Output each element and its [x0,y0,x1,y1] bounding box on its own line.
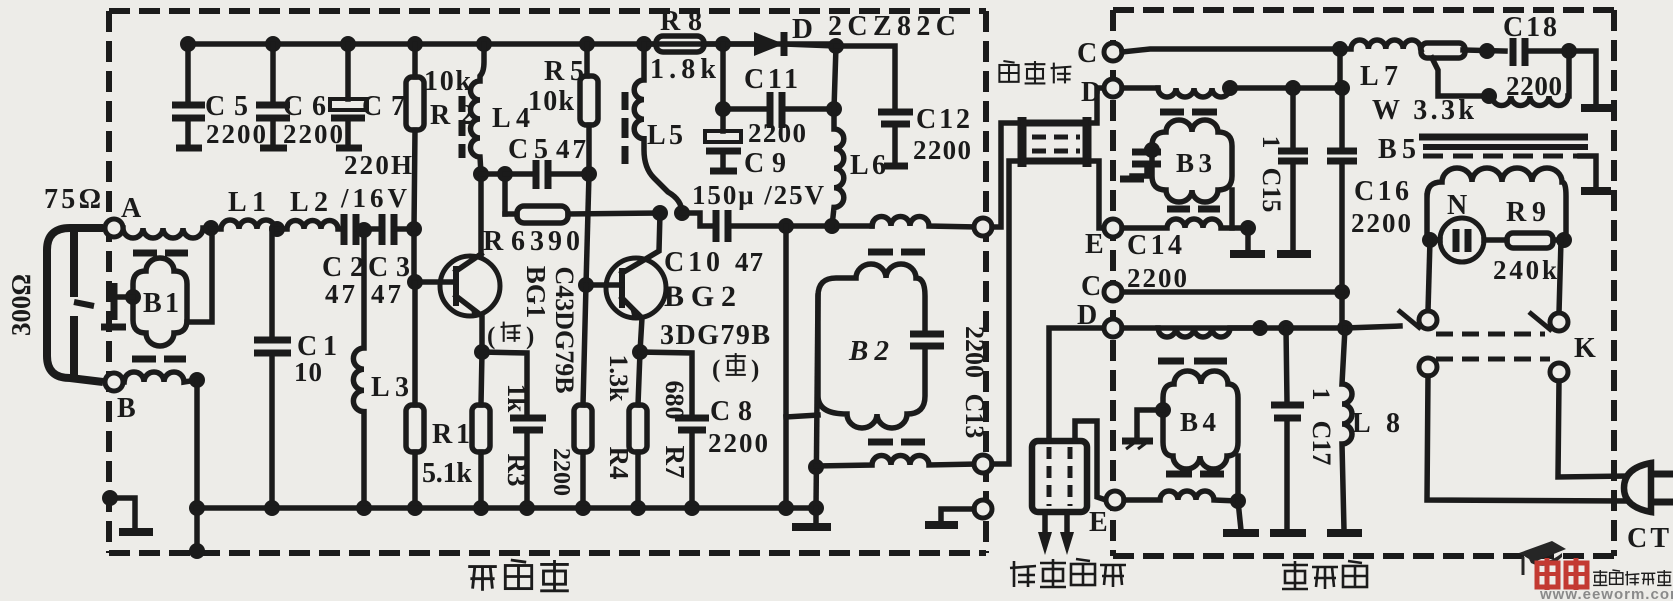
B2 secondary loop [818,264,925,428]
node at B1 bottom right [189,372,205,388]
terminal A [105,219,123,237]
svg-text:(: ( [712,356,720,383]
svg-text:240k: 240k [1493,255,1557,285]
C14 capacitor at B3 left [1144,142,1160,158]
svg-text:220H: 220H [344,150,412,180]
svg-text:1: 1 [1257,136,1284,149]
B1 bottom core [132,356,156,363]
svg-text:BG1: BG1 [521,266,551,319]
wire to B2 left rail [786,415,818,417]
B1 secondary to primary link wire [187,228,212,322]
terminal D top [1104,79,1122,97]
to-TV caption (CJK) [1010,559,1126,587]
enclosure right border [983,11,989,553]
svg-text:C12: C12 [916,104,970,135]
wire R5 node down to BG2 base [586,174,589,285]
B2 tertiary winding [816,456,975,467]
B2 core top [868,249,893,256]
svg-text:R1: R1 [432,419,470,450]
wire base node to BG1 [407,274,423,290]
tertiary ground T [1238,501,1241,530]
collector line / C10 coupling [652,205,668,221]
svg-text:BG2: BG2 [664,280,736,313]
node L4 bottom / collector [473,166,489,182]
svg-text:5.1k: 5.1k [422,458,472,489]
svg-text:A: A [121,193,142,224]
B2 left rail down [816,296,818,508]
wire connector to terminal E (bottom) [1075,421,1106,500]
ground drop from bus end [813,508,819,523]
wire C mid to C16 [1122,289,1342,295]
terminal C mid [1104,283,1122,301]
power-box caption (CJK) [1282,561,1367,589]
node [269,221,285,237]
capacitor C13 across B2 [910,331,944,338]
svg-text:1: 1 [1307,388,1334,401]
ground at box corner [110,498,135,528]
folded dipole antenna [47,228,103,382]
terminal C top [1104,43,1122,61]
B1 secondary tap node [125,289,141,305]
B3 tertiary winding on E wire [1122,219,1248,228]
B5 primary winding loop (wiper branch) [1489,51,1569,106]
svg-text:2200: 2200 [548,448,574,496]
wire twin lead bottom-right to terminal E [1091,161,1104,228]
B1 secondary winding [133,258,187,346]
terminal E bottom [1106,491,1124,509]
wire node down from L2/C3 node [411,229,417,283]
enclosure top border [1113,7,1614,13]
svg-text:L5: L5 [647,120,683,151]
enclosure left border [106,11,112,553]
B5 rod right end to ground [1580,156,1596,188]
svg-text:C15: C15 [1257,168,1286,213]
ground T at E wire [1245,228,1251,250]
svg-text:E: E [1085,229,1104,260]
svg-text:www.eeworm.com: www.eeworm.com [1539,586,1673,601]
B4 core [1158,358,1184,365]
terminal D mid [1104,319,1122,337]
wire C18 right to ground T [1569,51,1596,105]
switch to plug wires [1427,376,1626,501]
svg-text:2200: 2200 [960,326,989,378]
B4 chassis tap [1155,402,1171,418]
svg-text:C13: C13 [960,394,989,439]
B3 secondary right leg to E wire [1229,190,1235,228]
svg-text:C5: C5 [508,134,548,165]
svg-text:B1: B1 [143,288,179,319]
svg-text:3DG79B: 3DG79B [660,320,770,351]
svg-text:C: C [1081,271,1101,302]
transformer B1 primary winding [123,228,211,238]
enclosure top border [109,8,986,14]
svg-text:C: C [1077,38,1097,69]
B1 core [133,250,157,257]
left pole [1419,311,1437,329]
svg-text:390: 390 [530,226,580,257]
emitter node BG1 [474,344,490,360]
svg-text:C17: C17 [1307,421,1336,466]
svg-text:C16: C16 [1354,176,1409,207]
svg-text:B: B [117,393,136,424]
node [406,221,422,237]
svg-text:C43DG79B: C43DG79B [550,266,579,393]
svg-text:K: K [1574,333,1596,364]
wire from C10 node down to ground bus [783,226,789,508]
svg-text:L6: L6 [850,150,886,181]
svg-text:B4: B4 [1180,407,1216,437]
stub to C5-47 and R6 [481,174,505,214]
switch link dashed [1436,332,1545,337]
svg-text:C11: C11 [744,64,798,95]
B1 bottom winding [124,372,197,382]
B3 core [1160,109,1184,116]
svg-text:1.3k: 1.3k [604,355,633,403]
enclosure left border [1110,10,1116,556]
svg-text:10k: 10k [528,86,574,117]
B2 primary winding [872,217,975,228]
svg-text:D: D [1077,300,1097,331]
red logo text [1537,558,1587,590]
svg-text:W 3.3k: W 3.3k [1372,95,1474,126]
svg-text:R7: R7 [660,446,690,479]
pickup winding [1427,168,1566,240]
transistor BG1 [440,256,500,316]
node C10 right [778,218,794,234]
right pole [1550,313,1568,331]
emitter node BG2 [632,344,648,360]
parallel-line label (CJK) [999,61,1071,83]
svg-text:E: E [1089,507,1108,538]
wire twin lead bottom-left down to amp lower output [992,161,1018,464]
ground terminal [974,500,992,518]
svg-text:R9: R9 [1506,197,1546,228]
output terminal bottom [974,455,992,473]
B3 core bottom [1167,206,1190,213]
svg-text:): ) [751,356,759,383]
graduation cap logo [1519,541,1566,562]
svg-text:75Ω: 75Ω [44,184,101,215]
B4 core bottom [1166,471,1192,478]
terminal E mid [1104,219,1122,237]
wire twin lead top-right to terminal D [1091,88,1104,123]
B3 secondary loop [1152,120,1232,202]
B4 secondary right leg [1235,456,1241,501]
node [203,220,219,236]
svg-text:(: ( [487,323,495,350]
svg-text:300Ω: 300Ω [6,274,36,336]
svg-text:C14: C14 [1127,230,1182,261]
output terminal top [974,218,992,236]
svg-text:C10: C10 [664,247,720,278]
wire D to B3 primary [1122,85,1158,91]
connector arrows [1042,512,1048,534]
B4 secondary loop [1163,371,1238,469]
enclosure right border [1611,10,1617,556]
svg-text:10: 10 [294,357,322,387]
wire twin lead top-left to amp output [992,123,1018,227]
wire C top to L7 [1122,49,1340,52]
B4 tertiary winding on E wire [1124,491,1238,501]
svg-text:47: 47 [735,247,763,277]
capacitor C4 electrolytic [482,352,527,508]
B3 primary winding [1158,88,1230,97]
svg-text:2200: 2200 [1506,71,1562,101]
enclosure bottom border [109,550,986,556]
L4 core dashes [459,96,466,112]
dark site-name glyphs [1593,570,1671,585]
svg-text:150μ /25V: 150μ /25V [692,180,825,210]
svg-text:2200: 2200 [913,135,971,165]
top bus wire [188,41,836,47]
svg-text:10k: 10k [424,66,471,97]
svg-text:1.8k: 1.8k [650,54,716,85]
W wiper arm [1432,58,1489,96]
svg-text:B3: B3 [1176,148,1212,178]
wire B1 bottom to ground bus [194,380,200,553]
enclosure bottom border [1113,553,1614,559]
svg-text:D: D [792,13,813,45]
terminal B [105,373,123,391]
feedthrough cap to shield at B1 [118,294,133,300]
svg-text:D: D [1081,77,1101,108]
svg-text:): ) [526,323,534,350]
B4 primary winding on D wire [1158,328,1260,337]
wire C2-C3 with tap [356,226,382,232]
wire connector to terminal D (mid) [1049,328,1104,441]
svg-text:680: 680 [660,381,689,420]
twin lead cable symbol [1018,120,1091,127]
svg-text:2200: 2200 [748,118,806,148]
mains wire D to switch [1122,325,1345,331]
amplifier-box caption (CJK) [468,560,569,591]
B2 core bottom [868,439,893,446]
transistor BG2 [606,258,666,318]
